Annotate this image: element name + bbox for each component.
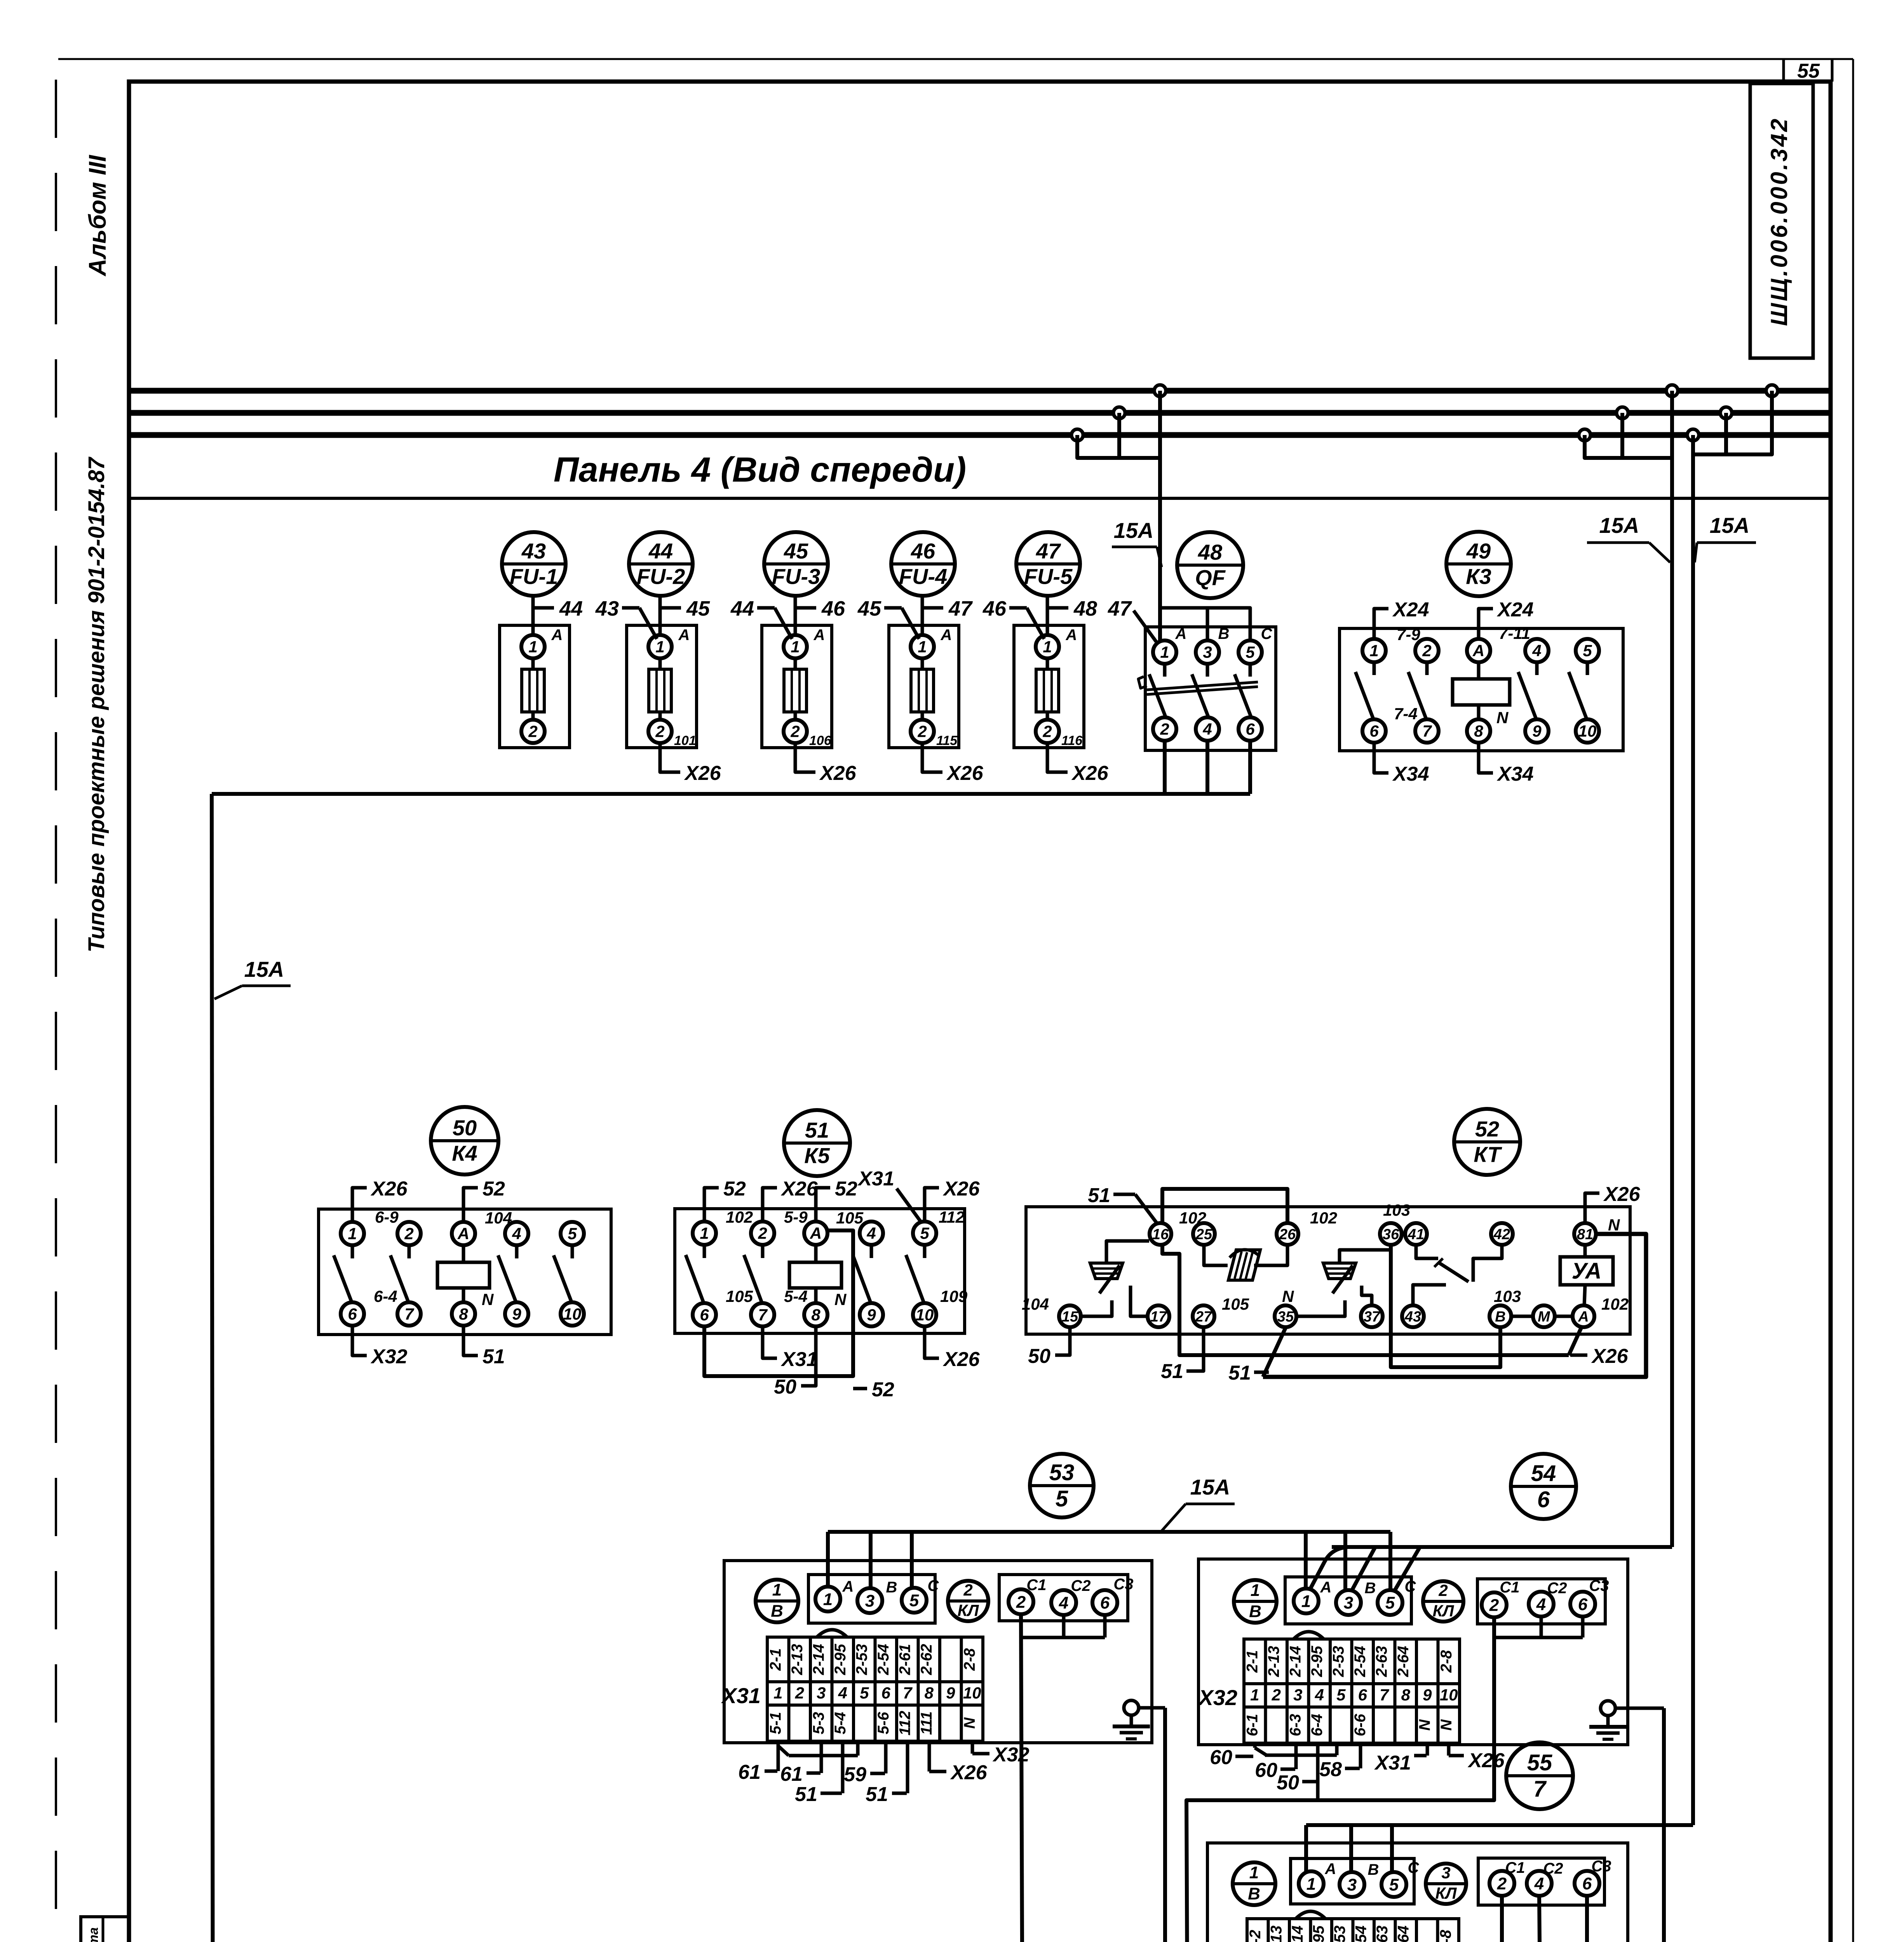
svg-text:К4: К4	[452, 1141, 477, 1166]
svg-text:4: 4	[866, 1224, 876, 1242]
svg-text:5: 5	[920, 1224, 929, 1242]
svg-text:1: 1	[772, 1580, 782, 1599]
label 52 at K5 loop	[853, 1378, 894, 1401]
terminal block X34	[1200, 1911, 1459, 1942]
svg-text:6-3: 6-3	[1287, 1714, 1304, 1737]
wire K4 terminal 8 to 51	[463, 1326, 505, 1368]
svg-text:102: 102	[726, 1208, 753, 1226]
wire feeder A right side	[1670, 391, 1674, 1547]
svg-text:49: 49	[1466, 539, 1491, 563]
svg-text:15: 15	[1062, 1309, 1078, 1325]
label 51 to KT terminal 35	[1228, 1362, 1269, 1384]
svg-text:Типовые проектные решения: Типовые проектные решения 901-2-0154.87	[84, 456, 109, 952]
svg-text:ШЩ.006.000.342: ШЩ.006.000.342	[1766, 117, 1792, 326]
svg-text:44: 44	[559, 597, 583, 620]
wire block 55 C3 to lamp H7-9	[1587, 1896, 1617, 1942]
svg-text:Х24: Х24	[1496, 599, 1534, 621]
wire block 54 ground to N bus	[1662, 1708, 1666, 1942]
svg-text:60: 60	[1210, 1746, 1232, 1769]
svg-text:26: 26	[1279, 1226, 1296, 1242]
svg-text:2: 2	[795, 1684, 804, 1702]
wire block 55 C1 to lamp H7-1	[1471, 1896, 1502, 1942]
wire block 53 ground to N bus	[1163, 1708, 1167, 1942]
svg-text:51: 51	[483, 1345, 505, 1368]
svg-text:37: 37	[1364, 1309, 1381, 1325]
relay K4 (50)	[319, 1107, 611, 1335]
device circle 54/6	[1511, 1454, 1576, 1519]
svg-text:Х26: Х26	[942, 1178, 980, 1200]
contact KT 41-42-43	[1413, 1245, 1502, 1305]
wire block 53 C1 to lamp H5-1	[1021, 1614, 1023, 1942]
svg-text:6-4: 6-4	[1308, 1714, 1326, 1737]
svg-text:9: 9	[1423, 1686, 1432, 1704]
svg-text:5: 5	[1583, 642, 1592, 660]
wire K5 terminal 2 to X26	[763, 1178, 818, 1222]
svg-text:52: 52	[872, 1378, 894, 1401]
ground block 54	[1589, 1701, 1664, 1739]
sheet outer edge right	[1852, 59, 1854, 1942]
wire K4 terminal A to 52	[463, 1178, 505, 1222]
svg-text:9: 9	[867, 1306, 876, 1324]
svg-text:111: 111	[918, 1711, 935, 1735]
svg-text:9: 9	[512, 1305, 521, 1323]
svg-text:44: 44	[648, 539, 673, 563]
svg-text:Х24: Х24	[1392, 599, 1429, 621]
svg-text:3-13: 3-13	[1268, 1925, 1285, 1942]
svg-text:2: 2	[1489, 1596, 1499, 1615]
svg-text:36: 36	[1383, 1226, 1399, 1242]
svg-text:55: 55	[1797, 60, 1820, 82]
svg-text:В: В	[1218, 625, 1230, 642]
svg-text:104: 104	[485, 1209, 512, 1227]
svg-text:А: А	[551, 626, 563, 644]
svg-text:51: 51	[1161, 1360, 1183, 1383]
svg-text:112: 112	[939, 1208, 965, 1226]
KT terminals bottom row	[1059, 1305, 1594, 1327]
connection box 53 outline	[724, 1561, 1152, 1743]
relay K3 (49)	[1340, 532, 1623, 751]
block 53 circle 1/B	[756, 1580, 798, 1622]
svg-text:3: 3	[817, 1684, 826, 1702]
svg-text:2: 2	[655, 722, 664, 741]
terminal block X32	[1197, 1632, 1460, 1743]
svg-text:7: 7	[758, 1306, 768, 1324]
svg-text:7: 7	[903, 1684, 913, 1702]
wire block 53 C2 C3 join C1	[1021, 1615, 1105, 1637]
svg-text:6: 6	[1246, 720, 1255, 738]
svg-text:Панель 4 (Вид спереди): Панель 4 (Вид спереди)	[554, 451, 966, 489]
svg-text:А: А	[814, 626, 825, 644]
svg-text:2-53: 2-53	[1330, 1646, 1347, 1677]
svg-text:8: 8	[459, 1305, 468, 1323]
svg-text:51: 51	[866, 1783, 888, 1806]
block 54 phase box C1 C2 C3	[1477, 1577, 1609, 1624]
block 53 phase box A B C	[808, 1575, 939, 1623]
svg-text:2-62: 2-62	[918, 1644, 935, 1675]
wire K5 terminal A to 52	[816, 1178, 857, 1222]
svg-text:3: 3	[1347, 1875, 1357, 1894]
svg-text:53: 53	[1049, 1460, 1075, 1485]
svg-text:52: 52	[723, 1178, 746, 1200]
svg-text:FU-1: FU-1	[510, 564, 558, 589]
svg-text:2-95: 2-95	[1308, 1646, 1326, 1677]
svg-text:2: 2	[917, 722, 927, 741]
svg-text:Х26: Х26	[684, 762, 721, 785]
svg-text:2: 2	[790, 722, 800, 741]
svg-text:2: 2	[758, 1224, 767, 1242]
block 55 phase box A B C	[1291, 1858, 1420, 1904]
svg-text:2-2: 2-2	[1247, 1930, 1264, 1942]
wire B-M-A links	[1511, 1315, 1573, 1318]
svg-text:1: 1	[1301, 1592, 1311, 1611]
svg-text:15А: 15А	[1190, 1475, 1230, 1499]
svg-text:А: А	[941, 626, 952, 644]
bus line L1	[129, 388, 1831, 394]
wire K5 terminal 5 to X31 and X26	[857, 1168, 980, 1223]
svg-text:Х26: Х26	[370, 1178, 408, 1200]
svg-text:47: 47	[948, 597, 973, 620]
svg-text:46: 46	[821, 597, 845, 620]
svg-text:4: 4	[1315, 1686, 1324, 1704]
svg-text:А: А	[1325, 1860, 1336, 1878]
svg-text:С2: С2	[1547, 1580, 1567, 1597]
svg-text:1: 1	[1249, 1863, 1259, 1882]
svg-text:Х31: Х31	[1374, 1752, 1411, 1774]
svg-text:С: С	[928, 1577, 939, 1594]
svg-text:105: 105	[1222, 1295, 1249, 1313]
svg-text:54: 54	[1531, 1461, 1556, 1486]
svg-text:5-9: 5-9	[784, 1208, 808, 1226]
block 53 phase box C1 C2 C3	[999, 1575, 1134, 1621]
sheet outer edge left (dashed)	[55, 80, 57, 1942]
svg-text:8: 8	[1474, 722, 1483, 740]
svg-text:Подпись и дата: Подпись и дата	[86, 1927, 101, 1942]
svg-text:8: 8	[1401, 1686, 1411, 1704]
svg-text:УА: УА	[1572, 1258, 1602, 1284]
svg-text:С2: С2	[1543, 1860, 1563, 1877]
time relay KT (52)	[1026, 1109, 1630, 1334]
svg-text:К5: К5	[804, 1143, 830, 1168]
block 54 X32 bottom stubs	[1210, 1742, 1505, 1800]
relay K5 (51)	[675, 1110, 968, 1333]
svg-text:48: 48	[1073, 597, 1097, 620]
svg-text:5: 5	[568, 1225, 577, 1243]
svg-text:6-1: 6-1	[1244, 1714, 1261, 1737]
svg-text:5-3: 5-3	[810, 1712, 827, 1735]
svg-text:2-13: 2-13	[789, 1644, 806, 1675]
bus junction dots left	[1071, 385, 1166, 441]
svg-text:47: 47	[1036, 539, 1061, 563]
svg-text:1: 1	[773, 1684, 782, 1702]
wire left feeder down to lamp H3	[212, 794, 213, 1942]
svg-text:3-53: 3-53	[1331, 1925, 1348, 1942]
svg-text:Х32: Х32	[1197, 1685, 1237, 1710]
svg-text:3: 3	[1441, 1864, 1450, 1882]
svg-text:106: 106	[809, 733, 832, 748]
svg-text:В: В	[1365, 1580, 1376, 1597]
fuse FU-4	[857, 532, 984, 785]
svg-text:51: 51	[1228, 1362, 1251, 1384]
svg-text:N: N	[1496, 708, 1509, 727]
svg-text:17: 17	[1150, 1309, 1167, 1325]
svg-text:Х34: Х34	[1496, 763, 1534, 785]
svg-text:10: 10	[916, 1306, 934, 1324]
svg-text:А: А	[842, 1578, 854, 1595]
svg-text:Х26: Х26	[950, 1761, 988, 1784]
svg-text:7-4: 7-4	[1394, 705, 1418, 723]
svg-text:М: М	[1538, 1309, 1550, 1325]
fuse FU-5	[982, 532, 1109, 785]
svg-text:Х31: Х31	[857, 1168, 894, 1190]
svg-text:С: С	[1405, 1578, 1416, 1595]
device circle 55/7	[1506, 1742, 1573, 1809]
svg-text:109: 109	[940, 1287, 968, 1305]
svg-text:5-6: 5-6	[875, 1712, 892, 1735]
svg-text:4: 4	[512, 1225, 521, 1243]
svg-text:9: 9	[946, 1684, 955, 1702]
wire KT loop 16 to 26	[1162, 1189, 1287, 1223]
wire QF output bus to left feeder	[212, 792, 1250, 796]
svg-text:6: 6	[1537, 1487, 1550, 1512]
wire K3 terminal A to X24	[1479, 599, 1534, 639]
svg-text:8: 8	[925, 1684, 934, 1702]
wire K5 terminal 8 to 50	[774, 1326, 816, 1398]
svg-text:С: С	[1408, 1859, 1420, 1876]
wire bus taps to QF feeder	[1077, 413, 1160, 458]
svg-text:FU-5: FU-5	[1024, 564, 1073, 589]
svg-text:В: В	[1495, 1309, 1505, 1325]
svg-text:48: 48	[1198, 540, 1223, 564]
svg-text:QF: QF	[1195, 566, 1226, 590]
svg-text:41: 41	[1408, 1226, 1424, 1242]
svg-text:2-63: 2-63	[1373, 1646, 1390, 1677]
svg-text:N: N	[1438, 1719, 1455, 1731]
svg-text:46: 46	[911, 539, 935, 563]
connection box 55 outline	[1207, 1843, 1628, 1942]
label 47 at QF input	[1108, 597, 1156, 642]
svg-text:2-61: 2-61	[896, 1644, 913, 1675]
wire K5 terminal 1 to 52	[704, 1178, 746, 1222]
wire 15A feeder to QF	[1158, 391, 1162, 640]
thermal element KT right	[1297, 1250, 1391, 1316]
svg-text:105: 105	[836, 1209, 864, 1227]
svg-text:1: 1	[1251, 1581, 1260, 1600]
svg-text:1: 1	[823, 1590, 833, 1609]
label 15A left feeder	[214, 957, 291, 999]
svg-text:2: 2	[1438, 1581, 1448, 1599]
svg-text:2: 2	[1016, 1592, 1026, 1611]
svg-text:С1: С1	[1500, 1579, 1519, 1596]
svg-text:51: 51	[795, 1783, 817, 1806]
wire KT 16 down to A and X26	[1162, 1245, 1629, 1368]
wire bus taps right group 2	[1693, 391, 1772, 454]
svg-text:5: 5	[1389, 1875, 1399, 1894]
svg-text:101: 101	[674, 733, 696, 748]
svg-text:А: А	[1578, 1309, 1589, 1325]
svg-text:102: 102	[1310, 1209, 1337, 1227]
label 51 to KT terminal 16	[1088, 1184, 1158, 1224]
svg-text:10: 10	[563, 1305, 582, 1323]
svg-text:Х26: Х26	[1071, 762, 1109, 785]
svg-text:С3: С3	[1591, 1858, 1611, 1875]
wire K4 terminal 1 to X26	[352, 1178, 408, 1222]
svg-text:КЛ: КЛ	[958, 1601, 979, 1620]
svg-text:КЛ: КЛ	[1433, 1602, 1455, 1620]
svg-text:27: 27	[1195, 1309, 1212, 1325]
svg-text:К3: К3	[1466, 564, 1491, 589]
svg-text:Х31: Х31	[780, 1348, 818, 1371]
wire feeder B right side	[1691, 435, 1695, 1825]
svg-text:N: N	[834, 1290, 847, 1309]
svg-text:Х26: Х26	[1591, 1345, 1629, 1368]
svg-text:6: 6	[881, 1684, 891, 1702]
left margin table labels	[86, 1927, 101, 1942]
svg-text:45: 45	[784, 539, 808, 563]
svg-text:КТ: КТ	[1474, 1142, 1502, 1167]
wire block 55 C2 to lamp H7-5	[1539, 1896, 1542, 1942]
svg-text:2-14: 2-14	[1287, 1646, 1304, 1677]
svg-text:FU-4: FU-4	[899, 564, 947, 589]
svg-text:Альбом III: Альбом III	[84, 155, 111, 277]
svg-text:58: 58	[1319, 1758, 1342, 1781]
svg-text:45: 45	[857, 597, 881, 620]
svg-text:3-63: 3-63	[1374, 1925, 1391, 1942]
left margin text Типовые проектные решения 901-2-0154.87	[84, 456, 109, 952]
svg-text:6-4: 6-4	[374, 1287, 397, 1305]
svg-text:52: 52	[835, 1178, 857, 1200]
block 53 X31 bottom stubs	[738, 1742, 1029, 1806]
svg-text:43: 43	[1404, 1309, 1421, 1325]
svg-text:2-8: 2-8	[1438, 1650, 1455, 1673]
title Панель 4 (Вид спереди)	[554, 451, 966, 489]
svg-text:6-6: 6-6	[1352, 1714, 1369, 1737]
svg-text:51: 51	[805, 1118, 829, 1142]
svg-text:45: 45	[686, 597, 710, 620]
wire K3 terminal 8 to X34	[1479, 743, 1534, 785]
svg-text:С2: С2	[1071, 1577, 1090, 1594]
svg-text:А: А	[810, 1224, 822, 1242]
svg-text:Х32: Х32	[370, 1345, 408, 1368]
svg-text:116: 116	[1061, 733, 1083, 748]
fuse FU-3	[730, 532, 857, 785]
svg-text:5: 5	[1385, 1593, 1395, 1612]
svg-text:5: 5	[1336, 1686, 1346, 1704]
svg-text:8: 8	[811, 1306, 820, 1324]
svg-text:50: 50	[774, 1376, 796, 1398]
KT terminals top row	[1150, 1223, 1596, 1245]
svg-text:В: В	[1248, 1884, 1260, 1903]
connection box 54 outline	[1198, 1559, 1628, 1745]
wire KT 81 to X26 top	[1585, 1183, 1641, 1223]
svg-text:3: 3	[1344, 1593, 1353, 1612]
svg-text:А: А	[1175, 625, 1187, 642]
svg-text:Х31: Х31	[721, 1683, 761, 1708]
svg-text:3: 3	[1293, 1686, 1302, 1704]
svg-text:60: 60	[1255, 1759, 1277, 1782]
bus junction dots right	[1579, 385, 1778, 441]
label 15A feeder B	[1695, 513, 1756, 562]
svg-text:4: 4	[1202, 720, 1212, 738]
svg-text:1: 1	[918, 638, 927, 656]
svg-text:3: 3	[1203, 643, 1212, 661]
svg-text:Х26: Х26	[942, 1348, 980, 1371]
svg-text:5: 5	[1246, 643, 1255, 661]
svg-text:С3: С3	[1589, 1577, 1609, 1594]
left margin text Альбом III	[84, 155, 111, 277]
svg-text:2-8: 2-8	[961, 1648, 978, 1671]
terminal block X31	[721, 1630, 983, 1741]
svg-text:2: 2	[1160, 720, 1169, 738]
svg-text:1: 1	[655, 638, 664, 656]
svg-text:Х34: Х34	[1392, 763, 1429, 785]
svg-text:2-1: 2-1	[767, 1648, 784, 1671]
circuit breaker QF (48)	[1138, 532, 1276, 750]
svg-text:А: А	[1472, 642, 1484, 660]
svg-text:7: 7	[1422, 722, 1432, 740]
svg-text:В: В	[1249, 1602, 1261, 1621]
wire bus taps right group 1	[1585, 413, 1672, 458]
svg-text:А: А	[678, 626, 690, 644]
label 51 to KT terminal 27	[1161, 1328, 1204, 1383]
svg-text:46: 46	[982, 597, 1007, 620]
svg-text:3: 3	[865, 1591, 874, 1610]
svg-text:2-53: 2-53	[853, 1644, 870, 1675]
svg-text:С1: С1	[1505, 1859, 1525, 1876]
svg-text:2-1: 2-1	[1244, 1650, 1261, 1673]
svg-text:2: 2	[1272, 1686, 1281, 1704]
svg-text:6: 6	[1578, 1595, 1588, 1614]
svg-text:4: 4	[1534, 1874, 1544, 1893]
block 54 circle 2/KL	[1423, 1581, 1463, 1622]
svg-text:105: 105	[726, 1287, 753, 1305]
svg-text:50: 50	[453, 1115, 477, 1140]
fuse FU-2	[595, 532, 721, 785]
svg-text:5-4: 5-4	[832, 1712, 849, 1735]
svg-text:9: 9	[1532, 722, 1542, 740]
svg-text:4: 4	[838, 1684, 847, 1702]
svg-text:FU-2: FU-2	[637, 564, 685, 589]
svg-text:44: 44	[730, 597, 754, 620]
wire K5 loop 6 to A	[704, 1230, 853, 1376]
svg-text:N: N	[1416, 1719, 1433, 1731]
svg-text:5-1: 5-1	[767, 1712, 784, 1735]
svg-text:102: 102	[1601, 1295, 1629, 1313]
wire K5 terminal 7 to X31	[763, 1326, 818, 1371]
wire KT 15 to 50	[1028, 1328, 1070, 1368]
svg-text:Х26: Х26	[946, 762, 984, 785]
svg-text:3-64: 3-64	[1395, 1925, 1412, 1942]
block 55 circle 3/KL	[1426, 1864, 1466, 1904]
svg-text:43: 43	[595, 597, 619, 620]
svg-text:35: 35	[1277, 1309, 1294, 1325]
wire K3 terminal 6 to X34	[1374, 743, 1429, 785]
svg-text:115: 115	[936, 733, 958, 748]
wire K3 terminal 1 to X24	[1374, 599, 1429, 639]
svg-text:С3: С3	[1113, 1576, 1133, 1593]
device circle 53/5	[1030, 1454, 1094, 1517]
svg-text:N: N	[961, 1717, 978, 1729]
svg-text:2: 2	[963, 1581, 972, 1599]
svg-text:6-9: 6-9	[375, 1208, 399, 1226]
svg-text:2-95: 2-95	[832, 1644, 849, 1676]
wire feeder B to block 55 phases	[1306, 1825, 1693, 1873]
svg-text:7-9: 7-9	[1397, 625, 1420, 644]
svg-text:52: 52	[1475, 1117, 1499, 1141]
block 55 circle 1/B	[1233, 1862, 1275, 1905]
rotated document number stamp ШЩ.006.000.342	[1750, 84, 1813, 358]
KT pin labels	[1022, 1201, 1629, 1313]
svg-text:103: 103	[1383, 1201, 1410, 1219]
